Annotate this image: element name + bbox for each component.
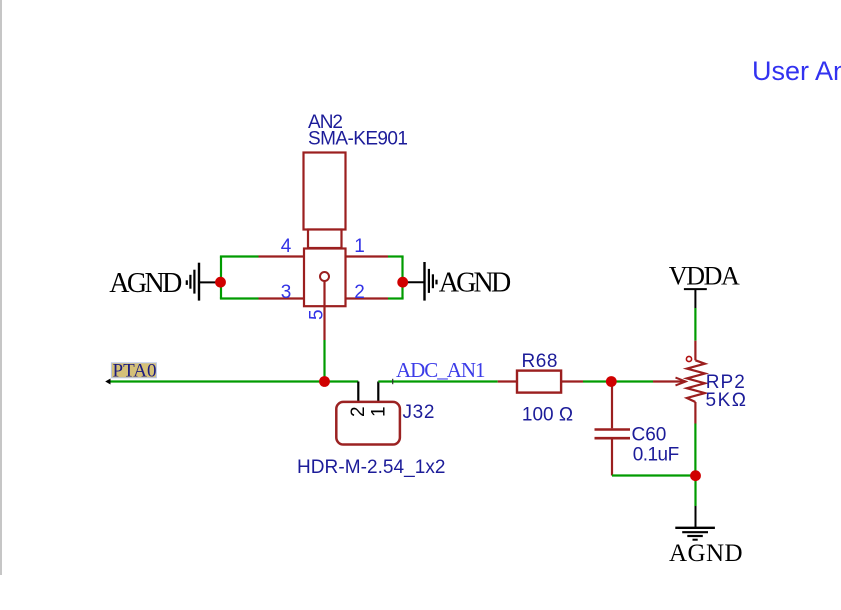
connector J32 pin1 stub xyxy=(377,382,379,403)
potentiometer RP2 wiper arrowhead xyxy=(676,378,686,386)
svg-text:C60: C60 xyxy=(632,425,667,446)
svg-text:HDR-M-2.54_1x2: HDR-M-2.54_1x2 xyxy=(297,457,446,478)
wire RP2 bottom to junction xyxy=(694,424,696,477)
bottom junction dot xyxy=(690,470,701,481)
connector AN2 center pin circle xyxy=(320,272,329,281)
svg-text:4: 4 xyxy=(281,236,292,257)
svg-text:AGND: AGND xyxy=(109,268,182,299)
wire SMA pin5 vertical xyxy=(323,340,325,382)
junction dot R68/C60/RP2 xyxy=(606,376,617,387)
right ground symbol lead xyxy=(403,281,424,283)
svg-text:User Analog Input: User Analog Input xyxy=(752,56,841,86)
potentiometer RP2 top lead xyxy=(694,341,696,361)
svg-text:J32: J32 xyxy=(403,402,435,423)
right ground symbol bars xyxy=(425,262,437,301)
svg-text:AGND: AGND xyxy=(669,540,743,567)
capacitor C60 top lead xyxy=(611,385,613,428)
wire junction to AGND xyxy=(694,476,696,506)
connector AN2 main square xyxy=(304,249,346,307)
net label anchor tick xyxy=(392,379,394,384)
wire left loop vertical xyxy=(220,257,222,299)
svg-text:100 Ω: 100 Ω xyxy=(522,404,573,425)
potentiometer RP2 wiper arm xyxy=(653,380,684,382)
connector J32 pin2 stub xyxy=(357,382,359,403)
capacitor C60 bottom lead xyxy=(611,439,613,475)
svg-text:1: 1 xyxy=(369,406,390,417)
svg-text:0.1uF: 0.1uF xyxy=(633,445,680,466)
pin 2 lead xyxy=(346,297,389,299)
junction dot PTA0/pin5 xyxy=(319,376,330,387)
capacitor C60 top plate xyxy=(595,428,631,431)
wire junction to RP2 wiper xyxy=(611,380,653,382)
wire pin3 to left loop xyxy=(220,297,259,299)
wire pin1 to right loop xyxy=(388,255,404,257)
PTA0 net label highlight xyxy=(111,363,156,378)
svg-text:R68: R68 xyxy=(522,351,558,372)
resistor R68 left lead xyxy=(498,380,517,382)
svg-text:AGND: AGND xyxy=(439,268,512,299)
capacitor C60 bottom plate xyxy=(595,437,631,440)
bottom ground lead xyxy=(695,506,697,527)
svg-text:5KΩ: 5KΩ xyxy=(706,390,747,411)
right junction dot xyxy=(397,277,408,288)
svg-text:ADC_AN1: ADC_AN1 xyxy=(396,358,486,382)
wire ADC_AN1 horizontal xyxy=(378,380,497,382)
pin 3 lead xyxy=(259,297,305,299)
left ground symbol lead xyxy=(199,281,221,283)
pin 1 lead xyxy=(346,255,389,257)
wire R68 to junction xyxy=(583,380,611,382)
svg-text:1: 1 xyxy=(354,236,365,257)
port arrow at left end of PTA0 wire xyxy=(105,379,110,385)
page left border xyxy=(0,0,2,575)
potentiometer RP2 zigzag xyxy=(687,360,705,402)
wire pin2 to right loop xyxy=(388,297,404,299)
resistor R68 right lead xyxy=(561,380,583,382)
wire VDDA to RP2 xyxy=(694,308,696,341)
connector AN2 center pin lead inside square xyxy=(323,281,325,306)
potentiometer RP2 wiper terminal circle xyxy=(686,356,691,361)
left junction dot xyxy=(215,277,226,288)
potentiometer RP2 bottom lead xyxy=(694,402,696,424)
svg-text:5: 5 xyxy=(307,309,328,320)
svg-text:2: 2 xyxy=(354,282,365,303)
wire PTA0 horizontal xyxy=(108,380,358,382)
connector J32 body xyxy=(336,402,400,445)
bottom ground bars xyxy=(675,528,715,540)
svg-text:VDDA: VDDA xyxy=(669,261,740,290)
svg-text:3: 3 xyxy=(281,282,292,303)
wire pin4 to left loop xyxy=(220,255,259,257)
connector AN2 neck rect xyxy=(308,230,342,249)
svg-text:2: 2 xyxy=(348,406,369,417)
wire right loop vertical xyxy=(401,257,403,299)
resistor R68 body xyxy=(517,371,561,393)
wire C60 bottom to junction xyxy=(612,474,696,476)
left ground symbol bars xyxy=(187,263,199,301)
VDDA power bar xyxy=(684,288,707,290)
svg-text:SMA-KE901: SMA-KE901 xyxy=(308,129,408,150)
connector AN2 body top rect xyxy=(304,153,346,230)
pin 4 lead xyxy=(259,255,305,257)
pin 5 lead xyxy=(323,306,325,340)
VDDA stem black xyxy=(694,289,696,308)
svg-text:PTA0: PTA0 xyxy=(113,361,157,382)
